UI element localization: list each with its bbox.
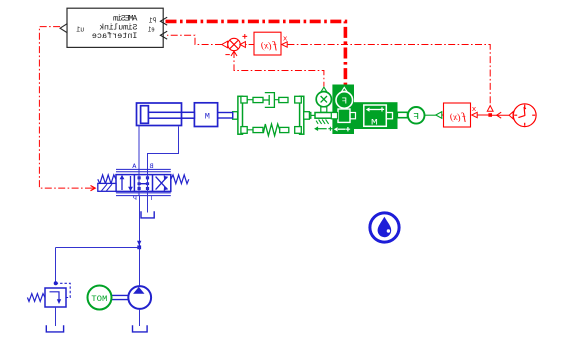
sensor displacement arrow [318,128,327,130]
clock output triangle [509,112,513,119]
tank at T [141,211,154,218]
valve bottom rail [116,193,171,196]
wire: T to tank [147,196,149,213]
wire: pump suction to tank [139,309,141,326]
arrowhead into P junction [137,241,141,246]
pump flow triangle [133,287,144,294]
wire: valve A/B through-lines [139,170,148,197]
sensor port square [305,113,310,119]
displacement sensor X circle [316,92,331,107]
left plate [300,96,304,134]
wire: cylinder port A down [138,126,140,170]
right spring [98,175,116,184]
wire sensor to spring port [311,114,315,116]
junction node dot [488,113,492,117]
svg-text:B: B [150,163,154,171]
svg-text:M: M [205,111,210,121]
left port square [304,112,310,120]
svg-text:MOT: MOT [91,296,107,304]
valve body [116,175,171,192]
wire: junction to f(x)2 [477,114,490,116]
f(x)2 input arrow [472,112,478,117]
u1 output triangle [60,24,67,33]
summer output triangle [222,41,228,48]
interface block title text [92,14,138,42]
wire: arrow to force transducer F [425,114,436,116]
wire: junction to relief valve [56,248,140,285]
crossed arrows cell [156,177,168,190]
damper branch squares [295,96,302,103]
summing junction [228,38,240,50]
sensor ground hatching [316,119,329,124]
mass block M1 [194,103,217,127]
sensor body [315,113,332,119]
relief valve spring [27,294,45,302]
wire: clock branch to f(x)1 (dash-dot) [287,45,490,112]
right port square [233,112,238,120]
AMESim-Simulink interface block U1 [67,8,163,47]
left spring [171,175,189,184]
function block f(x) 1 [254,32,281,55]
pump [128,286,151,309]
spring branch squares [295,127,302,134]
relief valve pilot dashed line [56,283,71,297]
label - [225,54,229,56]
relief valve pilot junction dot [54,281,58,285]
wire: u1 command to servovalve (dash-dot) [39,27,89,189]
function block f(x) 2 [444,103,471,127]
P junction node [137,245,141,249]
wire: f(x)1 to summer [246,44,254,46]
cylinder body [137,103,182,126]
svg-text:F: F [342,97,348,107]
force input port arrow (green) [436,112,442,119]
wire: clock to junction [490,114,509,116]
link rod F to mass2 [397,112,407,117]
wire: minus feedback from displacement sensor [234,51,324,87]
rod into cylinder [146,112,194,118]
spring zigzag [263,124,280,136]
spring-damper block [233,93,310,136]
svg-text:P1: P1 [148,18,156,26]
sensor stem [321,107,327,112]
label + [242,34,247,39]
wire: pump to junction [139,247,141,286]
displacement sensor input triangle [321,87,326,91]
wire: thick pressure signal P1 (dash-dot) [166,21,346,84]
svg-text:F: F [413,111,419,122]
svg-text:Interface: Interface [92,31,138,41]
e1 input chevron [160,31,167,39]
motor shaft [111,295,128,299]
proportional solenoid [98,183,116,191]
hydraulic fluid properties icon [370,213,399,242]
svg-text:x: x [471,106,476,114]
arrowhead on clock wire [497,112,502,118]
right plate [238,96,243,134]
damper (dashpot) [263,93,274,108]
summer plus input triangle [240,42,245,48]
svg-text:T: T [150,195,154,203]
f(x)1 input arrow [282,42,288,47]
relief valve internal arrow [50,292,60,300]
tank at pump [133,325,148,332]
wire: P down to pump junction [139,196,141,247]
svg-text:e1: e1 [147,27,154,35]
minus input arrow into summer [231,51,237,56]
wire: e1 error signal from summer to interface [167,35,222,44]
piston rod to mass [217,113,232,119]
prime mover MOT [88,286,112,310]
tank at relief valve [46,325,63,332]
parallel arrows cell [122,176,131,190]
valve port labels [131,163,153,203]
svg-text:P: P [133,195,137,203]
valve top rail [116,169,171,171]
wire: cylinder port B route [148,127,179,170]
P1 input chevron [160,17,167,25]
top rail wires [247,99,299,101]
svg-text:u1: u1 [76,27,84,35]
sensor left port pad [331,113,337,119]
bottom rail wires [247,129,299,131]
servovalve [98,169,189,195]
svg-text:x: x [282,35,287,43]
clock source [513,104,536,127]
relief valve body [45,288,66,307]
wire: f(x)2 to force input [442,114,444,116]
closed centre cell [138,176,141,179]
force transducer F circle [408,107,425,124]
force source block (green) [332,85,355,135]
branch triangle above junction [487,106,493,112]
piston [141,106,149,124]
hydraulic jack (cylinder) [137,103,233,127]
arrowhead into servovalve solenoid [91,186,96,191]
wire: relief valve to tank [55,307,57,326]
mass block with friction (green) [354,102,398,129]
svg-text:M: M [371,118,378,128]
